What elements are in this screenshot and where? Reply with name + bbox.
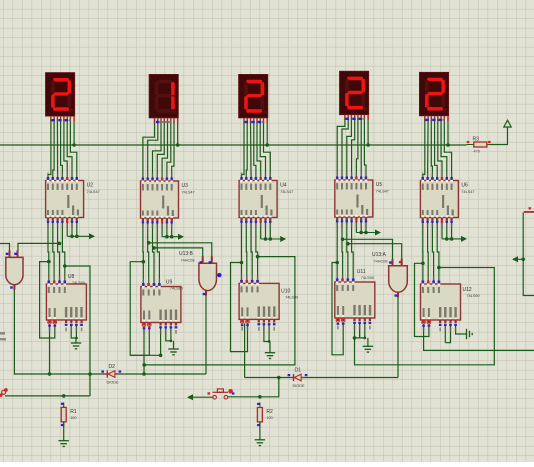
wire common-anode supply bus [0,144,467,146]
wire U9 QC to U13:B input B [149,243,212,257]
node QA junction U9 [142,260,146,264]
svg-text:74HC08: 74HC08 [181,258,195,262]
wire segment d display4 to U5 [352,118,355,177]
wire BCD bit C U2 to U8 [53,221,54,282]
decoder U5 74LS47 [335,172,389,227]
wire U10 to ground [269,342,271,353]
wire segment a display4 to U5 [337,118,345,177]
svg-text:74LS47: 74LS47 [280,190,293,194]
wire BCD bit C U5 to U11 [341,220,344,279]
wire QA to CKB loop U8 [40,262,55,338]
wire U11 R0 down [354,322,356,338]
wire U5 pin LT down [355,220,357,233]
svg-text:U5: U5 [376,182,383,188]
wire U12 reset pin a [444,324,446,343]
node R2 junction [258,395,262,399]
node U9 R junction [159,354,163,358]
wire segment d display5 to U6 [435,119,438,178]
svg-text:U13:A: U13:A [372,252,387,258]
wire QA to CKB loop U12 [415,263,429,336]
node QD/clock crossing junction [88,372,92,376]
node U8 QB junction [58,242,62,246]
decoder U6 74LS47 [420,173,474,228]
node bus junction 1 [72,143,76,147]
svg-text:74LS47: 74LS47 [461,190,474,194]
svg-text:74LS47: 74LS47 [182,191,195,195]
node right edge junction [521,258,525,262]
wire segment b display2 to U3 [148,121,158,178]
wire U3 pin RBI down [166,221,168,237]
wire segment g display1 to U2 [70,119,76,178]
wire QA to CKB loop U10 [231,263,248,352]
counter U10 74LS90 [239,275,298,330]
counter U9 74LS90 [141,279,183,334]
svg-text:R2: R2 [266,409,273,415]
wire U12 to side ground [456,324,467,334]
node on U9 CKA riser [142,363,146,367]
wire U6 pin BI down [451,221,453,239]
wire segment d display1 to U2 [61,119,63,178]
wire U8 reset pins merge [71,324,76,338]
node column 1 RBI/BI junction [75,235,79,239]
wire U4 pin RBI down [265,221,267,240]
svg-text:U4: U4 [280,183,287,189]
node QA junction U8 [47,260,51,264]
svg-text:U12: U12 [463,287,472,293]
node bus junction 3 [265,143,269,147]
ground R2 [255,440,265,446]
wire segment f display3 to U4 [260,121,265,178]
left edge partial label [0,332,5,335]
wire BCD bit A U4 to U10 [256,221,258,281]
node U11 QB junction [346,242,350,246]
wire segment a display3 to U4 [242,121,245,178]
wire BCD bit A U2 to U8 [62,221,64,282]
diode D2 [101,364,121,385]
svg-text:470: 470 [474,150,480,154]
node bus junction 2 [176,143,180,147]
wire R2 to ground [259,422,261,440]
node column 3 RBI/BI junction [269,237,273,241]
node column 1 LT/RBI junction [70,235,74,239]
wire display 5 common pin to bus [447,118,449,145]
svg-text:D2: D2 [109,364,116,370]
svg-text:R3: R3 [473,137,480,143]
left switch contact [0,388,8,397]
svg-text:R1: R1 [70,409,77,415]
wire U11 to ground [367,338,369,346]
decoder U3 74LS47 [141,173,195,228]
node bus junction 4 [366,143,370,147]
wire BCD bit A U6 to U12 [437,221,439,282]
node R1 junction [62,394,66,398]
wire U12 CKA clock from right edge [424,324,534,350]
wire QA to CKB loop U11 [332,263,343,355]
svg-text:U13:B: U13:B [179,251,194,257]
wire U10 reset pins merge [264,323,269,341]
wire U6 pin RBI down [446,221,448,239]
resistor R3 [467,137,494,154]
svg-text:74HC08: 74HC08 [374,259,388,263]
wire BCD bit D U6 to U12 [422,221,424,282]
node QA junction U11 [335,261,339,265]
wire segment c display3 to U4 [250,121,253,178]
wire U5 pin BI down [365,220,367,233]
node U11 clock merge [353,336,357,340]
wire segment f display5 to U6 [441,119,447,178]
svg-text:U6: U6 [461,183,468,189]
wire segment e display1 to U2 [64,119,67,178]
wire BCD bit A U3 to U9 [157,221,159,284]
wire BCD bit B U5 to U11 [347,220,348,279]
wire segment f display2 to U3 [167,121,171,178]
wire arrow to button [191,396,213,398]
wire BCD bit D U5 to U11 [336,220,338,279]
wire U9 QB to U13:B input A [154,248,203,257]
wire U11 R0 merge [355,322,360,338]
wire BCD bit B U3 to U9 [153,221,155,284]
wire segment g display4 to U5 [364,118,366,177]
wire QA to CKB loop U9 [130,262,149,356]
node column 3 LT/RBI junction [264,237,268,241]
wire segment g display2 to U3 [172,121,174,178]
node bus junction 5 [446,143,450,147]
terminal arrow column 1 [67,233,95,239]
svg-text:74LS47: 74LS47 [376,190,389,194]
svg-text:74LS90: 74LS90 [467,294,480,298]
wire R3 to power terminal [490,127,508,145]
svg-text:D1: D1 [295,368,302,374]
node U8 QD junction [63,264,67,268]
node U12 QD junction [437,266,441,270]
wire segment b display4 to U5 [342,118,348,177]
svg-text:U9: U9 [166,280,173,286]
wire U13:A output down [397,297,399,378]
wire U10 CKA down to D1 clock line [244,323,246,377]
node column 4 LT/RBI junction [359,231,363,235]
wire segment f display1 to U2 [67,119,72,178]
wire BCD bit C U4 to U10 [245,221,248,281]
ground U9 [168,349,178,355]
wire U3 pin LT down [161,221,163,237]
wire display 4 common pin to bus [367,117,369,145]
decoder U2 74LS47 [46,173,100,228]
wire U13:B output down [205,296,207,375]
svg-text:100: 100 [70,416,76,420]
wire segment d display2 to U3 [157,121,164,178]
node column 5 LT/RBI junction [445,237,449,241]
wire BCD bit C U6 to U12 [427,221,430,282]
svg-text:U2: U2 [87,183,94,189]
wire U4 pin LT down [260,221,262,240]
svg-text:74LS90: 74LS90 [170,287,183,291]
wire segment b display1 to U2 [53,119,54,178]
wire BCD bit C U3 to U9 [148,221,149,284]
node U9 QC junction [147,241,151,245]
ground U8 [71,343,81,349]
svg-text:74LS90: 74LS90 [285,295,298,299]
wire U11 QB to U13:A input B [348,244,402,260]
wire U12 QD loop to U11 clock [355,268,495,365]
wire segment d display3 to U4 [254,121,256,178]
wire segment a display5 to U6 [423,119,425,178]
7-segment display 3 showing 2 [239,75,268,124]
svg-text:74LS47: 74LS47 [87,190,100,194]
U13:B side node dot [217,273,221,277]
node column 4 RBI/BI junction [364,231,368,235]
resistor R2 [257,403,273,428]
wire BCD bit B U2 to U8 [58,221,60,282]
wire right edge vertical [523,213,534,296]
wire R1 to ground [63,422,65,441]
node U11 reset junction [363,337,366,340]
node QA junction U12 [421,262,425,266]
terminal arrow column 5 [442,236,467,242]
counter U11 74LS90 [335,269,375,329]
svg-text:100: 100 [266,416,272,420]
wire segment a display2 to U3 [143,121,155,178]
node U8 reset junction [75,337,78,340]
svg-text:U3: U3 [182,183,189,189]
node U9 reset junction [170,339,173,342]
7-segment display 2 showing 1 [149,75,178,124]
wire segment e display3 to U4 [257,121,261,178]
wire BCD bit D U4 to U10 [241,221,243,281]
7-segment display 1 showing 2 [46,73,75,122]
wire U8 to ground [75,338,77,343]
ground R1 [59,441,69,447]
wire display 3 common pin to bus [266,120,268,145]
terminal arrow left of button [187,394,193,400]
terminal arrow column 4 [356,230,381,236]
ground U11 [363,346,373,352]
wire U10 QD loop to U9 clock [144,257,295,365]
wire U4 pin BI down [269,221,271,240]
svg-text:U8: U8 [68,274,75,280]
AND gate U7 (left) [6,250,23,289]
wire left edge to AND1 input A [0,244,10,251]
wire U2 pin RBI down [71,221,73,237]
wire segment e display2 to U3 [162,121,167,178]
counter U12 74LS90 [421,276,480,331]
push button switch [208,389,235,399]
wire right edge component pin [524,211,534,213]
svg-text:DIODE: DIODE [293,384,305,388]
node column 2 LT/RBI junction [165,235,169,239]
wire display 1 common pin to bus [73,119,75,146]
node QA junction U10 [240,261,244,265]
wire U3 pin BI down [171,221,173,237]
counter U8 74LS90 [46,274,86,331]
AND gate U13:A 74HC08 [372,252,407,297]
wire display 2 common pin to bus [177,120,179,145]
wire segment g display5 to U6 [444,119,451,178]
diode D1 [288,368,308,389]
wire U2 pin BI down [76,221,78,237]
node U8 CKA junction [48,372,52,376]
7-segment display 5 showing 2 [420,72,449,121]
terminal arrow column 2 [162,234,184,240]
node U9 QB junction [152,246,156,250]
node U10 QD junction [256,255,260,259]
wire BCD bit D U2 to U8 [47,221,50,282]
ground U12 (rotated) [467,329,473,339]
right edge component pin [524,211,534,213]
wire U8 QB to AND1 input B [18,243,60,250]
wire segment f display4 to U5 [360,118,362,177]
wire BCD bit B U6 to U12 [432,221,433,282]
terminal arrow column 3 [261,236,287,242]
wire segment c display5 to U6 [431,119,432,178]
svg-text:U11: U11 [357,269,366,275]
wire segment b display3 to U4 [245,121,248,178]
wire clock line D2 row [14,289,206,374]
ground U10 [265,353,275,359]
wire U8 QD down to reset line [65,266,90,396]
resistor R1 [61,402,77,427]
node U11 QC junction [341,238,345,242]
wire segment c display1 to U2 [56,119,58,178]
wire clock line D1 row [245,377,398,379]
power terminal [504,120,511,127]
node column 5 RBI/BI junction [450,237,454,241]
wire U9 to ground [173,341,175,349]
wire BCD bit B U4 to U10 [251,221,252,281]
terminal arrow right edge [512,256,523,262]
wire U9 reset pins merge [166,327,171,341]
wire BCD bit A U5 to U11 [352,220,354,279]
wire U5 pin RBI down [360,220,362,233]
node column 2 RBI/BI junction [170,235,174,239]
wire segment e display4 to U5 [356,118,358,177]
wire segment c display4 to U5 [347,118,352,177]
node U10 reset junction [268,340,271,343]
node D1 line to button junction [277,376,281,380]
wire U12 reset pins merge [445,324,450,343]
wire U11 reset pins merge [360,322,365,338]
wire U2 pin LT down [66,221,68,237]
wire segment e display5 to U6 [438,119,442,178]
wire U9 R pin stub [160,327,162,356]
7-segment display 4 showing 2 [340,71,369,120]
wire U9 CKB tie [130,354,160,356]
svg-text:U10: U10 [281,288,290,294]
decoder U4 74LS47 [239,173,293,228]
wire segment b display5 to U6 [427,119,430,178]
wire segment a display1 to U2 [48,119,51,178]
svg-text:74LS90: 74LS90 [361,276,374,280]
wire left switch line [5,395,90,397]
wire segment g display3 to U4 [264,121,271,178]
wire U8 CKA down to clock line [49,324,51,374]
svg-text:74LS90: 74LS90 [72,281,85,285]
wire BCD bit D U3 to U9 [142,221,144,284]
wire U9 CKA down to clock line [143,327,145,375]
wire button to D1 line [228,378,279,397]
AND gate U13:B 74HC08 [179,251,217,296]
wire segment c display2 to U3 [153,121,162,178]
svg-text:DIODE: DIODE [107,381,119,385]
node U9 CKA junction [142,372,146,376]
wire U6 pin LT down [441,221,443,239]
wire U11 QC to U13:A input A [343,239,393,260]
